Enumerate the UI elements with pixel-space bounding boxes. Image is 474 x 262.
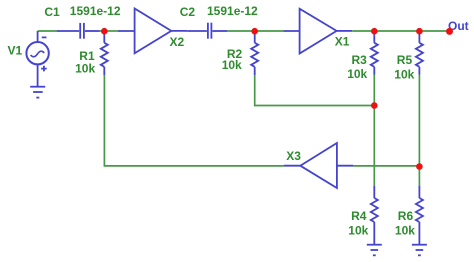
svg-text:C2: C2 xyxy=(180,5,196,19)
svg-text:1591e-12: 1591e-12 xyxy=(70,4,121,18)
node Out xyxy=(446,28,453,35)
wire: R3 bottom to node C xyxy=(373,75,375,106)
op-amp X1 xyxy=(283,9,352,54)
node A (junction after C1) xyxy=(101,28,108,35)
label X3 xyxy=(286,149,301,163)
label R6 xyxy=(398,209,414,223)
node C (junction R2/R3/R4) xyxy=(371,102,378,109)
resistor R1 xyxy=(101,31,108,75)
svg-text:V1: V1 xyxy=(8,44,23,58)
wire: node A to X2 input xyxy=(104,30,118,32)
wire: X3 input to node F xyxy=(353,165,419,167)
resistor R5 xyxy=(416,31,423,75)
label R4 value 10k xyxy=(348,224,368,238)
label X2 xyxy=(170,35,185,49)
wire: node B to X1 input xyxy=(255,30,284,32)
resistor R4 xyxy=(371,186,378,245)
svg-text:X3: X3 xyxy=(286,149,301,163)
wire: V1 top to C1 xyxy=(38,30,57,32)
label R3 value 10k xyxy=(347,67,367,81)
resistor R2 xyxy=(251,31,258,75)
label X1 xyxy=(335,34,350,48)
label R1 value 10k xyxy=(75,62,95,76)
wire: node F down to R6 xyxy=(418,167,420,186)
label R4 xyxy=(351,209,367,223)
wire: node E to Out xyxy=(419,30,449,32)
resistor R3 xyxy=(371,31,378,75)
svg-text:R4: R4 xyxy=(351,209,367,223)
node B (junction after C2) xyxy=(251,28,258,35)
label R2 value 10k xyxy=(222,58,242,72)
label C2 value 1591e-12 xyxy=(207,4,258,18)
svg-text:10k: 10k xyxy=(347,67,367,81)
svg-text:X2: X2 xyxy=(170,35,185,49)
node F (junction R5/R6/X3 input) xyxy=(416,163,423,170)
label Out xyxy=(448,19,469,33)
label C2 xyxy=(180,5,196,19)
wire: C1 to node A xyxy=(100,30,105,32)
ground (R6) xyxy=(412,245,427,256)
svg-text:1591e-12: 1591e-12 xyxy=(207,4,258,18)
label R5 value 10k xyxy=(394,67,414,81)
svg-text:10k: 10k xyxy=(222,58,242,72)
label V1 xyxy=(8,44,23,58)
voltage source V1 xyxy=(26,31,48,87)
svg-text:X1: X1 xyxy=(335,34,350,48)
wire: node D to node E xyxy=(374,30,419,32)
capacitor C2 xyxy=(187,23,227,39)
node D (junction at R3 top) xyxy=(371,28,378,35)
label R3 xyxy=(352,53,368,67)
op-amp X3 xyxy=(284,143,353,188)
ground (V1) xyxy=(30,87,45,98)
wire: R5 bottom to node F xyxy=(418,75,420,167)
label R6 value 10k xyxy=(395,224,415,238)
svg-text:10k: 10k xyxy=(395,224,415,238)
capacitor C1 xyxy=(57,23,100,39)
label C1 value 1591e-12 xyxy=(70,4,121,18)
wire: R2 bottom to node C xyxy=(255,75,375,105)
resistor R6 xyxy=(416,186,423,245)
label R1 xyxy=(79,49,95,63)
label R2 xyxy=(227,47,243,61)
op-amp X2 xyxy=(118,9,187,54)
svg-text:R6: R6 xyxy=(398,209,414,223)
ground (R4) xyxy=(367,245,382,256)
wire: X1 output to node D xyxy=(352,30,374,32)
svg-text:C1: C1 xyxy=(44,5,60,19)
svg-text:R5: R5 xyxy=(397,53,413,67)
wire: node C down to R4 xyxy=(373,106,375,186)
wire: C2 to node B xyxy=(227,30,255,32)
node E (junction at R5 top) xyxy=(416,28,423,35)
wire: X3 output feedback to R1 bottom xyxy=(104,75,283,166)
svg-text:10k: 10k xyxy=(348,224,368,238)
label C1 xyxy=(44,5,60,19)
svg-text:10k: 10k xyxy=(75,62,95,76)
svg-text:R3: R3 xyxy=(352,53,368,67)
svg-text:10k: 10k xyxy=(394,67,414,81)
label R5 xyxy=(397,53,413,67)
